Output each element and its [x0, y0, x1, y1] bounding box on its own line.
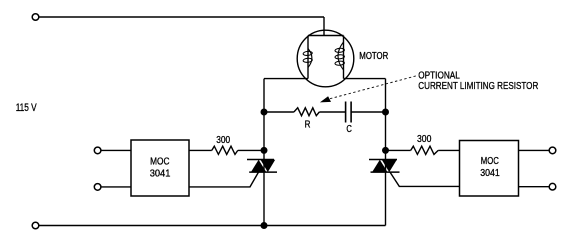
svg-text:MOC: MOC	[481, 156, 499, 167]
svg-text:MOTOR: MOTOR	[359, 50, 388, 62]
svg-text:C: C	[346, 124, 352, 135]
svg-text:R: R	[305, 119, 311, 130]
svg-text:CURRENT LIMITING RESISTOR: CURRENT LIMITING RESISTOR	[418, 80, 538, 92]
svg-text:300: 300	[216, 134, 230, 146]
svg-text:MOC: MOC	[150, 157, 169, 168]
svg-text:300: 300	[417, 133, 432, 145]
svg-text:3041: 3041	[150, 169, 171, 180]
svg-text:115 V: 115 V	[16, 102, 37, 114]
svg-text:3041: 3041	[480, 168, 500, 179]
